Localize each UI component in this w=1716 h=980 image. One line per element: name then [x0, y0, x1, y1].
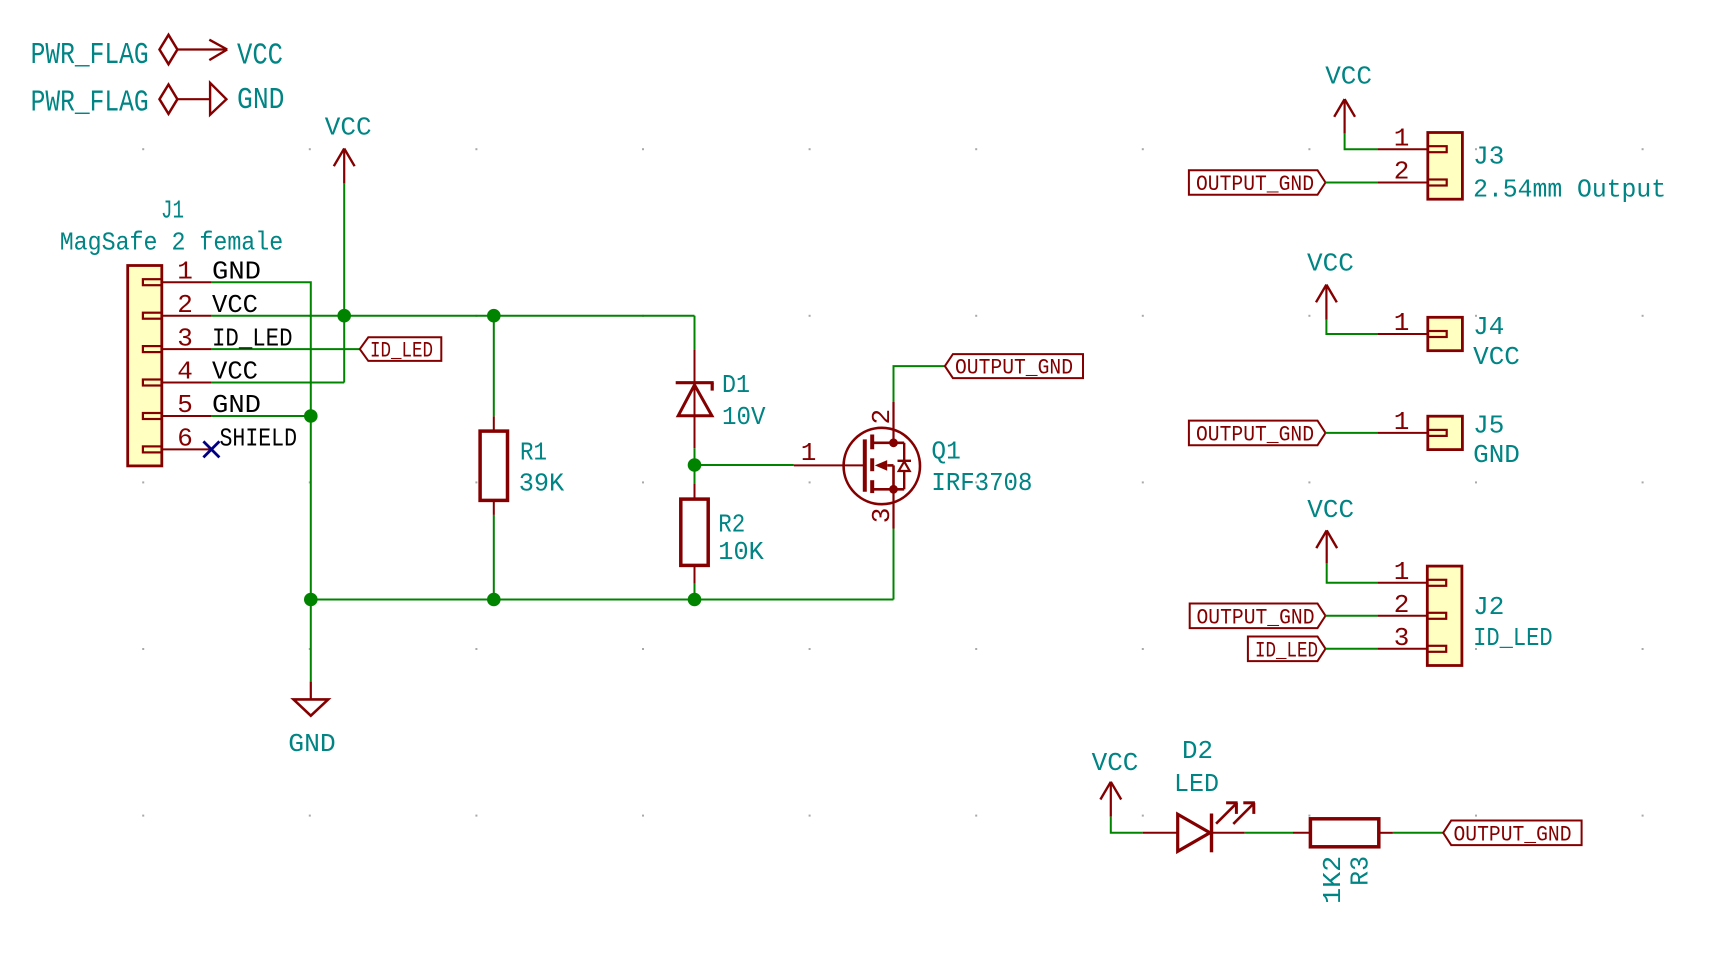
power symbol VCC (J3) — [1325, 62, 1372, 134]
junction J1 pin2/VCC — [337, 309, 351, 323]
power symbol GND (horizontal triangle) — [177, 83, 284, 118]
power symbol VCC (horizontal arrow) — [177, 38, 283, 73]
LED D2 — [1143, 736, 1255, 852]
connector J2 ID_LED — [1427, 566, 1552, 665]
wire VCC vertical drop to pin4 — [343, 184, 345, 383]
wire J1 pin4 horizontal — [211, 382, 344, 384]
wire label to J5 pin1 — [1326, 432, 1378, 434]
svg-text:GND: GND — [237, 83, 285, 118]
wire D2 cathode to R3 — [1245, 832, 1293, 834]
ground symbol GND (bottom) — [288, 682, 336, 759]
svg-text:R3: R3 — [1346, 856, 1376, 886]
wire J1 pin5 GND — [211, 415, 310, 417]
power flag PWR_FLAG (on GND) — [31, 85, 178, 121]
svg-text:3: 3 — [867, 508, 897, 524]
svg-text:1: 1 — [177, 256, 193, 286]
svg-text:VCC: VCC — [212, 357, 258, 387]
global label OUTPUT_GND (J2 pin2) — [1190, 604, 1326, 631]
J1 pin 3 ID_LED — [143, 323, 293, 353]
J1 pin 6 SHIELD — [143, 424, 297, 454]
J2 pin 1 — [1378, 557, 1447, 587]
wire D1 top — [694, 316, 696, 350]
svg-text:OUTPUT_GND: OUTPUT_GND — [955, 356, 1073, 381]
svg-text:1: 1 — [1394, 407, 1410, 437]
power symbol VCC (J2) — [1307, 495, 1354, 563]
transistor Q1 IRF3708 — [794, 402, 1033, 529]
svg-text:2.54mm Output: 2.54mm Output — [1473, 175, 1666, 205]
wire VCC to J3 pin1 — [1345, 134, 1378, 150]
svg-text:J2: J2 — [1473, 592, 1504, 622]
svg-text:1K2: 1K2 — [1318, 856, 1348, 904]
svg-text:GND: GND — [212, 390, 261, 420]
wire label to J2 pin3 — [1326, 648, 1378, 650]
svg-text:39K: 39K — [519, 468, 565, 498]
global label OUTPUT_GND (Q1 drain) — [945, 354, 1083, 381]
svg-text:VCC: VCC — [237, 38, 283, 73]
svg-text:ID_LED: ID_LED — [1473, 623, 1553, 653]
svg-text:J3: J3 — [1473, 142, 1504, 172]
svg-text:J4: J4 — [1473, 312, 1504, 342]
J5 pin 1 — [1378, 407, 1447, 437]
svg-text:IRF3708: IRF3708 — [931, 468, 1032, 498]
connector J3 2.54mm Output — [1428, 133, 1666, 205]
svg-text:J5: J5 — [1473, 411, 1504, 441]
junction gate node — [688, 458, 702, 472]
svg-text:4: 4 — [177, 357, 193, 387]
svg-text:D2: D2 — [1182, 736, 1213, 766]
svg-text:2: 2 — [1394, 590, 1410, 620]
junction rail left — [304, 593, 318, 607]
power flag PWR_FLAG (on VCC) — [31, 35, 178, 73]
svg-text:VCC: VCC — [1473, 342, 1520, 372]
J1 pin 1 GND — [143, 256, 261, 286]
svg-text:D1: D1 — [722, 370, 750, 400]
global label ID_LED (J1 pin3) — [360, 337, 442, 363]
svg-text:VCC: VCC — [212, 290, 258, 320]
resistor R3 — [1293, 819, 1393, 904]
svg-text:R1: R1 — [520, 437, 547, 467]
wire J1 pin1 GND — [211, 282, 310, 681]
global label ID_LED (J2 pin3) — [1248, 637, 1326, 664]
junction R1 top — [487, 309, 501, 323]
connector J1 MagSafe 2 female — [60, 195, 284, 466]
svg-text:SHIELD: SHIELD — [220, 424, 298, 454]
svg-text:2: 2 — [867, 409, 897, 425]
svg-text:5: 5 — [177, 390, 193, 420]
global label OUTPUT_GND (J3 pin2) — [1189, 170, 1326, 197]
global label OUTPUT_GND (J5 pin1) — [1189, 421, 1326, 448]
svg-text:PWR_FLAG: PWR_FLAG — [31, 86, 149, 121]
svg-text:3: 3 — [177, 323, 193, 353]
power symbol VCC (J4) — [1307, 249, 1354, 320]
svg-text:MagSafe 2 female: MagSafe 2 female — [60, 228, 284, 258]
wire D1 bottom to R2 — [694, 448, 696, 484]
resistor R1 — [480, 416, 564, 515]
svg-text:PWR_FLAG: PWR_FLAG — [31, 38, 149, 73]
svg-text:VCC: VCC — [1325, 62, 1372, 92]
svg-text:10V: 10V — [722, 402, 766, 432]
wire gate net to Q1 — [695, 464, 794, 466]
svg-text:OUTPUT_GND: OUTPUT_GND — [1196, 422, 1314, 447]
svg-text:ID_LED: ID_LED — [212, 323, 293, 353]
no-connect X on J1 pin 6 — [203, 441, 219, 457]
svg-text:OUTPUT_GND: OUTPUT_GND — [1197, 605, 1315, 630]
wire R1 bottom — [493, 515, 495, 600]
svg-text:GND: GND — [1473, 440, 1520, 470]
J1 pin 2 VCC — [143, 290, 258, 320]
wire R2 bottom to rail — [694, 584, 696, 600]
svg-text:LED: LED — [1174, 769, 1219, 799]
wire R3 to OUTPUT_GND label — [1393, 832, 1443, 834]
svg-text:1: 1 — [1394, 123, 1410, 153]
J1 pin 4 VCC — [143, 357, 258, 387]
connector J4 VCC — [1428, 312, 1520, 372]
J1 pin 5 GND — [143, 390, 261, 420]
resistor R2 — [681, 484, 764, 584]
J4 pin 1 — [1378, 308, 1447, 338]
junction rail R2 — [688, 593, 702, 607]
wire VCC to D2 anode — [1111, 817, 1143, 833]
svg-text:GND: GND — [212, 256, 261, 286]
wire Q1 source to rail — [893, 529, 895, 600]
junction J1 pin5 — [304, 409, 318, 423]
svg-text:Q1: Q1 — [931, 437, 960, 467]
svg-text:R2: R2 — [718, 510, 745, 540]
svg-text:OUTPUT_GND: OUTPUT_GND — [1196, 172, 1314, 197]
J2 pin 2 — [1378, 590, 1447, 620]
global label OUTPUT_GND (R3) — [1443, 821, 1581, 848]
wire J1 pin2 VCC horizontal — [211, 315, 694, 317]
svg-text:1: 1 — [1394, 557, 1410, 587]
J3 pin 2 — [1378, 157, 1447, 187]
svg-text:6: 6 — [177, 424, 193, 454]
svg-text:ID_LED: ID_LED — [1255, 638, 1318, 663]
connector J5 GND — [1428, 411, 1520, 470]
svg-text:2: 2 — [177, 290, 193, 320]
svg-text:GND: GND — [288, 729, 336, 759]
J3 pin 1 — [1378, 123, 1447, 153]
wire Q1 drain to OUTPUT_GND label — [894, 366, 945, 402]
svg-text:10K: 10K — [718, 537, 764, 567]
wire VCC to J2 pin1 — [1327, 563, 1378, 582]
svg-text:J1: J1 — [161, 195, 184, 225]
zener diode D1 — [676, 350, 766, 448]
svg-text:OUTPUT_GND: OUTPUT_GND — [1454, 822, 1572, 847]
svg-text:1: 1 — [1394, 308, 1410, 338]
power symbol VCC (D2) — [1092, 748, 1139, 817]
wire R1 top — [493, 316, 495, 417]
svg-text:1: 1 — [801, 438, 817, 468]
junction rail R1 — [487, 593, 501, 607]
svg-text:VCC: VCC — [1307, 495, 1354, 525]
svg-text:ID_LED: ID_LED — [370, 339, 433, 364]
wire bottom GND rail — [311, 599, 894, 601]
svg-text:VCC: VCC — [1307, 249, 1354, 279]
svg-text:3: 3 — [1394, 623, 1410, 653]
power symbol VCC (top, feeds J1 net) — [325, 113, 372, 184]
svg-text:VCC: VCC — [1092, 748, 1139, 778]
svg-text:2: 2 — [1394, 157, 1410, 187]
J2 pin 3 — [1378, 623, 1447, 653]
wire label to J3 pin2 — [1326, 182, 1378, 184]
wire label to J2 pin2 — [1326, 615, 1378, 617]
wire VCC to J4 pin1 — [1326, 320, 1377, 334]
svg-text:VCC: VCC — [325, 113, 372, 143]
wire J1 pin3 to ID_LED label — [211, 348, 359, 350]
